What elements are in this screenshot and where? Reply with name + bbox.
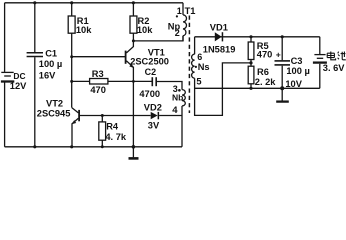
arrow VT1 emitter (129, 64, 134, 68)
resistor R1 (68, 3, 75, 108)
wire secondary bottom rail (195, 87, 320, 89)
transistor VT2 (72, 108, 79, 147)
node C3 top (281, 35, 284, 38)
node C1 top (33, 1, 36, 4)
label dianchi (battery) (327, 52, 346, 60)
svg-text:Nb: Nb (172, 92, 183, 102)
wire left vertical to DC source (4, 3, 6, 72)
node R1 top (70, 1, 73, 4)
wire collector to Np pin2 (133, 36, 183, 41)
transformer T1 primary Np (183, 3, 187, 41)
svg-text:10V: 10V (285, 79, 302, 89)
svg-text:VD1: VD1 (210, 22, 228, 32)
svg-text:R6: R6 (257, 67, 269, 77)
node emitter/R3/C2 junction (132, 80, 135, 83)
svg-text:3. 6V: 3. 6V (323, 63, 346, 73)
diode VD1 (215, 32, 222, 41)
svg-text:100 µ: 100 µ (39, 59, 62, 69)
DC source battery symbol (1, 72, 14, 81)
wire Nb pin4 to ground rail (181, 106, 183, 147)
node R6 bottom (249, 87, 252, 90)
svg-text:2: 2 (175, 28, 180, 38)
wire top +12V rail (5, 2, 183, 4)
svg-text:1: 1 (177, 6, 182, 16)
node VD1/R5 (249, 35, 252, 38)
ground symbol below rail (129, 147, 139, 159)
svg-text:3V: 3V (148, 121, 160, 131)
capacitor C3 (275, 37, 291, 89)
svg-text:DC: DC (13, 71, 25, 81)
node R4 bottom (101, 145, 104, 148)
svg-text:4. 7k: 4. 7k (105, 132, 127, 142)
svg-text:1N5819: 1N5819 (203, 45, 236, 55)
svg-text:VT2: VT2 (46, 98, 63, 108)
node VT1 base tap (70, 55, 73, 58)
svg-text:Ns: Ns (198, 62, 210, 72)
node R4 top (101, 114, 104, 117)
svg-text:C2: C2 (145, 67, 157, 77)
resistor R6 (248, 63, 254, 88)
svg-text:R3: R3 (92, 69, 104, 79)
diode VD2 zener (151, 112, 158, 119)
wire bottom ground rail (5, 146, 182, 148)
svg-text:2SC945: 2SC945 (37, 108, 71, 118)
svg-text:R4: R4 (106, 122, 119, 132)
svg-text:10k: 10k (76, 25, 92, 35)
node R3 tap (70, 80, 73, 83)
svg-text:16V: 16V (39, 70, 56, 80)
wire DC source negative to bottom rail (4, 82, 6, 146)
svg-text:4: 4 (172, 105, 178, 116)
resistor R4 (99, 116, 106, 147)
wire VT1 emitter branch to ground (132, 82, 134, 147)
node VT1 collector junction (132, 39, 135, 42)
wire VT2 base line (80, 115, 151, 117)
node R2 top (132, 1, 135, 4)
transformer core (188, 16, 190, 114)
polarity dot Ns (195, 66, 197, 68)
node VT2 emitter ground (70, 145, 73, 148)
svg-text:5: 5 (196, 77, 201, 87)
svg-text:+: + (276, 50, 281, 60)
node R5/R6 junction (249, 61, 252, 64)
svg-text:4700: 4700 (139, 89, 160, 99)
svg-text:10k: 10k (137, 25, 153, 35)
transformer feedback winding Nb (182, 90, 185, 106)
svg-text:100 µ: 100 µ (286, 66, 309, 76)
wire secondary top rail (195, 36, 320, 38)
battery 3.6V (313, 37, 327, 89)
svg-text:C3: C3 (291, 56, 303, 66)
transistor VT1 (72, 41, 134, 82)
arrow VT2 emitter (72, 120, 77, 124)
resistor R3 (72, 79, 152, 85)
svg-text:T1: T1 (185, 6, 196, 16)
node C3 bottom / ground (280, 86, 284, 90)
polarity dot Np (176, 15, 178, 17)
svg-text:2. 2k: 2. 2k (255, 77, 277, 87)
resistor R2 (130, 3, 137, 41)
svg-text:12V: 12V (10, 81, 27, 91)
capacitor C2 (152, 77, 182, 89)
polarity dot Nb (178, 89, 181, 92)
svg-text:2SC2500: 2SC2500 (130, 57, 169, 67)
capacitor C1 (27, 3, 43, 147)
svg-text:6: 6 (197, 52, 202, 62)
node C1 bottom (33, 145, 36, 148)
transformer secondary Ns (192, 37, 251, 116)
svg-text:VD2: VD2 (144, 102, 162, 112)
svg-text:C1: C1 (45, 48, 57, 58)
node emitter VT1 ground (132, 145, 136, 149)
svg-text:470: 470 (90, 85, 106, 95)
ground (276, 88, 289, 101)
resistor R5 (248, 37, 254, 63)
svg-text:470: 470 (257, 49, 273, 59)
